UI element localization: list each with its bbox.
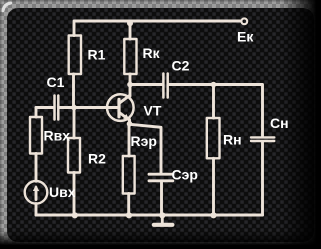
wire R2 to bottom rail — [73, 173, 76, 216]
node emitter — [127, 121, 133, 127]
svg-text:Сн: Сн — [270, 115, 289, 131]
svg-text:Eк: Eк — [237, 29, 254, 45]
wire Cer to bottom rail — [160, 182, 163, 215]
svg-text:C1: C1 — [47, 74, 65, 90]
svg-text:Rн: Rн — [223, 132, 242, 148]
wire emitter node to Rer — [128, 124, 131, 156]
transistor VT — [107, 94, 134, 121]
source Uvx arrow — [35, 188, 38, 200]
wire Rer to bottom rail — [127, 194, 130, 216]
resistor Rer — [123, 156, 135, 194]
wire top rail to Rk — [129, 21, 132, 39]
node output Rn — [211, 82, 217, 88]
capacitor C2 — [163, 74, 167, 98]
node collector C2 — [127, 82, 133, 88]
svg-text:Rэр: Rэр — [131, 133, 157, 149]
wire R1 bottom lead — [72, 74, 75, 108]
wire input left to C1 — [36, 106, 53, 109]
node top rail Rk — [127, 20, 133, 26]
wire Rn to bottom rail — [212, 158, 215, 215]
wire Cn to bottom rail — [261, 142, 264, 215]
node bottom Rn — [210, 212, 216, 218]
resistor Rk — [124, 39, 136, 74]
node bottom Rer — [126, 212, 132, 218]
capacitor Cn — [251, 137, 274, 141]
wire Rk to collector — [129, 74, 132, 96]
wire bottom rail — [36, 214, 263, 217]
wire Rvx to source — [35, 154, 38, 182]
capacitor Cer — [149, 174, 173, 181]
capacitor C1 — [55, 96, 59, 120]
wire base node down to R2 — [73, 108, 76, 139]
node bottom R2 — [72, 212, 78, 218]
svg-text:Rк: Rк — [143, 45, 161, 61]
svg-text:C2: C2 — [172, 58, 190, 74]
svg-text:R1: R1 — [88, 47, 106, 63]
node bottom ground — [159, 212, 165, 218]
wire C2 to output — [169, 85, 263, 137]
ground — [161, 215, 164, 223]
resistor R1 — [69, 36, 81, 75]
wire source to bottom rail — [35, 204, 38, 215]
wire top rail — [74, 21, 241, 36]
wire left vertical to Rvx — [35, 108, 38, 118]
wire emitter lead — [128, 120, 131, 124]
source Uvx circle — [25, 181, 48, 204]
resistor R2 — [68, 138, 80, 173]
svg-text:Rвх: Rвх — [44, 128, 71, 144]
wire output node to Rn — [212, 85, 215, 119]
wire collector node to C2 — [130, 83, 162, 86]
wire C1 to base — [60, 106, 119, 109]
svg-text:Сэр: Сэр — [172, 167, 198, 183]
resistor Rn — [207, 118, 220, 158]
svg-text:VT: VT — [144, 103, 162, 119]
svg-text:R2: R2 — [88, 151, 106, 167]
resistor Rvx — [30, 117, 42, 154]
svg-text:Uвх: Uвх — [49, 184, 76, 200]
terminal Ek — [241, 18, 247, 24]
node base divider — [71, 105, 77, 111]
wire emitter to Cer — [130, 124, 161, 173]
